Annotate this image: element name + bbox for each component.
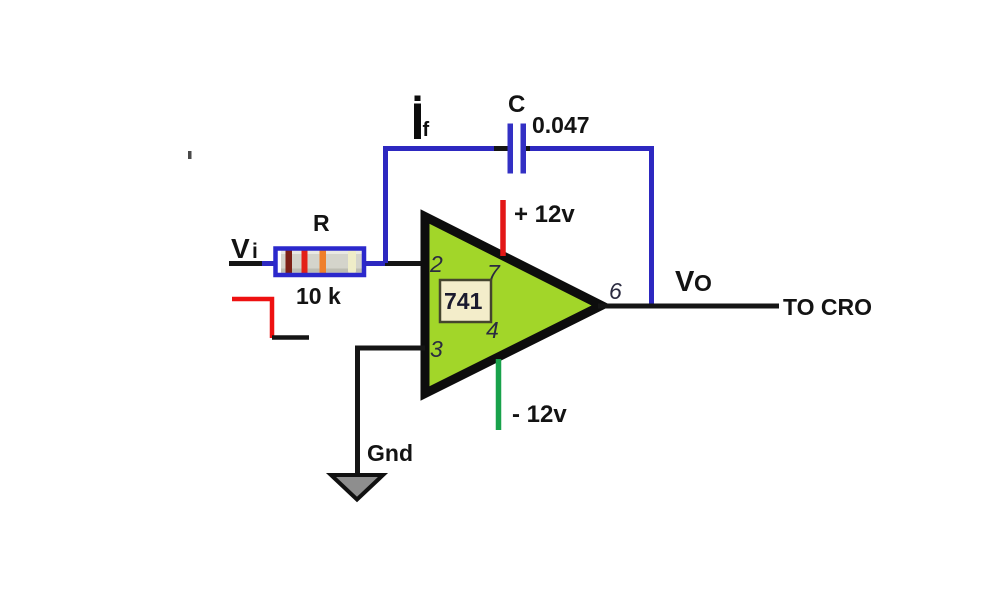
svg-text:V: V xyxy=(675,266,695,298)
+12V supply line (red) xyxy=(500,200,506,256)
wire ground vertical xyxy=(355,346,360,475)
capacitor C xyxy=(494,124,534,174)
wire blue stub into resistor xyxy=(262,261,276,266)
svg-text:2: 2 xyxy=(429,251,443,277)
wire blue stub after resistor xyxy=(365,261,388,266)
wire top-right horizontal (blue) xyxy=(530,146,654,151)
label If (feedback current) xyxy=(414,96,430,142)
wire pin 3 horizontal xyxy=(355,346,425,351)
label Vi xyxy=(231,233,258,264)
svg-text:Gnd: Gnd xyxy=(367,440,413,466)
IC box xyxy=(440,280,491,322)
wire feedback top-left horizontal (blue) xyxy=(383,146,500,151)
svg-text:C: C xyxy=(508,91,525,118)
svg-text:6: 6 xyxy=(609,278,622,304)
wire feedback right vertical (blue) xyxy=(649,146,654,305)
wire black to pin 2 xyxy=(385,261,425,266)
-12V supply line (green) xyxy=(496,359,502,430)
svg-text:741: 741 xyxy=(444,288,483,314)
svg-text:f: f xyxy=(423,119,430,141)
svg-text:R: R xyxy=(313,210,330,236)
op-amp U1 (741 triangle) xyxy=(425,217,602,394)
svg-text:0.047: 0.047 xyxy=(532,112,590,138)
label Vo xyxy=(675,266,712,298)
svg-text:- 12v: - 12v xyxy=(512,401,567,428)
wire input black from Vi xyxy=(229,261,270,266)
input waveform (red step) xyxy=(232,299,309,338)
svg-text:V: V xyxy=(231,233,250,264)
svg-text:10 k: 10 k xyxy=(296,283,341,309)
wire feedback left vertical (blue) xyxy=(383,146,388,263)
resistor R xyxy=(276,248,365,275)
svg-text:TO CRO: TO CRO xyxy=(783,294,872,320)
svg-text:3: 3 xyxy=(430,336,443,362)
wire output xyxy=(598,304,779,309)
svg-text:i: i xyxy=(252,240,258,263)
stray mark xyxy=(188,151,192,159)
svg-text:O: O xyxy=(694,270,712,296)
svg-text:+ 12v: + 12v xyxy=(514,201,575,228)
ground symbol xyxy=(331,475,383,500)
svg-text:4: 4 xyxy=(486,317,499,343)
